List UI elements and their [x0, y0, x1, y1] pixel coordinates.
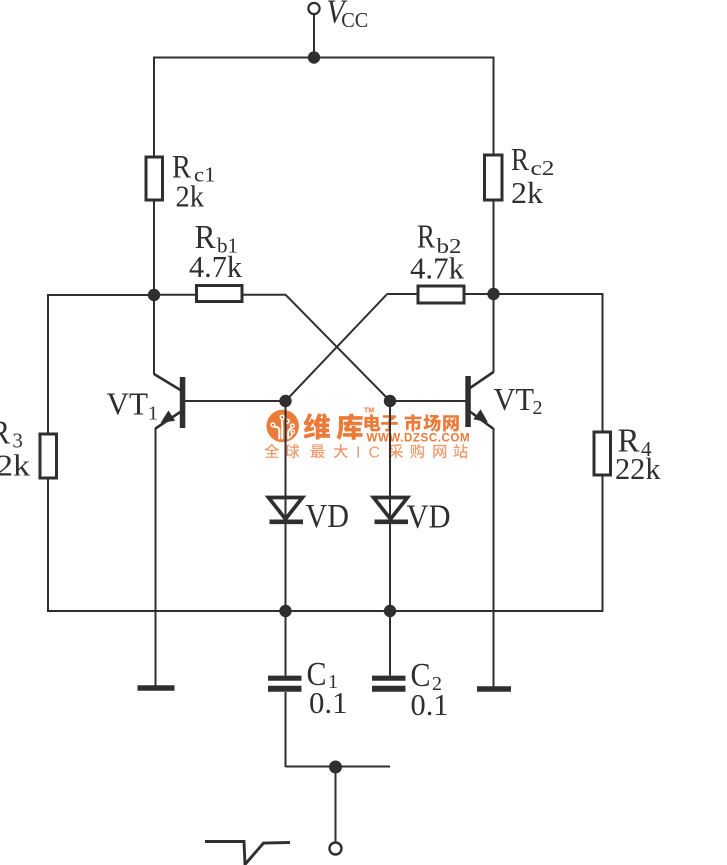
transistor VT2 [390, 372, 494, 429]
wire VT2 emitter to ground [493, 428, 495, 688]
svg-text:R: R [511, 141, 530, 177]
wire cross-coupling Rb1 to VT2 base node [286, 295, 391, 401]
label Rb1 [195, 219, 239, 258]
capacitor C1 [268, 678, 302, 689]
junction dot VD1 bottom rail [279, 605, 291, 617]
svg-text:R: R [0, 415, 10, 452]
label C2 value 0.1 [411, 687, 449, 722]
svg-text:2k: 2k [0, 448, 31, 483]
ground VT1 emitter [138, 685, 175, 691]
svg-text:VD: VD [407, 499, 451, 536]
junction dot VT1 base node [279, 395, 291, 407]
VCC terminal circle [308, 3, 319, 14]
svg-text:1: 1 [148, 403, 158, 425]
svg-text:2: 2 [533, 397, 543, 419]
resistor Rb2 4.7k [418, 286, 464, 303]
label Rc2 [511, 141, 555, 180]
svg-text:2k: 2k [176, 179, 205, 214]
wire rail to C1 [285, 611, 287, 676]
wire Rc1 to VT1 collector [153, 200, 155, 375]
watermark text dianzi shichang wang (Chinese) [364, 414, 458, 431]
svg-text:2k: 2k [511, 175, 544, 210]
diode VD2 [374, 498, 409, 522]
wire Rc2 to VT2 collector [493, 200, 495, 373]
resistor R4 [594, 432, 611, 475]
label Rb2 [417, 219, 462, 259]
wire C1 to bottom connector [285, 692, 287, 767]
svg-text:I: I [356, 445, 360, 462]
diode VD1 [269, 498, 304, 522]
watermark TM mark [364, 408, 374, 415]
label VT2 [494, 381, 543, 419]
svg-text:0.1: 0.1 [309, 685, 348, 720]
svg-text:VD: VD [306, 498, 350, 535]
label C1 value 0.1 [309, 685, 348, 720]
label Rb1 value 4.7k [189, 249, 242, 284]
wire R3 to bottom rail [47, 478, 49, 612]
junction dot Vcc on top rail [308, 51, 320, 63]
label R4 [618, 423, 653, 462]
wire top rail left drop to Rc1 [153, 57, 155, 159]
label Vcc [327, 0, 369, 32]
wire top rail [154, 57, 494, 59]
ground VT2 emitter [477, 686, 511, 692]
label R4 value 22k [615, 451, 661, 486]
label C1 [307, 656, 339, 693]
label VD1 [306, 498, 350, 535]
svg-text:4.7k: 4.7k [189, 249, 242, 284]
watermark text Weiku (Chinese) [304, 413, 363, 440]
wire left rail to R3 [48, 295, 154, 434]
wire VD1 to bottom rail [285, 523, 287, 611]
junction dot left (Rc1/Rb1/R3 node) [148, 289, 160, 301]
wire junction to Rb1 [154, 294, 196, 296]
watermark logo circle [267, 410, 299, 442]
label Rb2 value 4.7k [410, 251, 464, 286]
label Rc2 value 2k [511, 175, 544, 210]
svg-text:VT: VT [494, 381, 535, 417]
resistor Rb1 4.7k [197, 286, 243, 302]
resistor R3 [40, 434, 57, 478]
junction dot right (Rc2/Rb2/R4 node) [487, 288, 499, 300]
transistor VT1 [154, 374, 286, 429]
watermark slogan row (Chinese) [264, 444, 467, 462]
wire VT1 emitter to ground [155, 428, 157, 687]
wire bottom rail [48, 610, 603, 612]
svg-text:C: C [369, 445, 381, 462]
svg-text:WWW.DZSC.COM: WWW.DZSC.COM [367, 433, 471, 445]
wire trigger stub [335, 767, 337, 842]
wire Vcc stub [313, 14, 315, 57]
svg-text:CC: CC [341, 8, 368, 32]
wire bottom connector between C1 and C2 [286, 766, 391, 768]
label C2 [411, 657, 443, 695]
svg-text:TM: TM [364, 408, 374, 415]
wire VD2 to bottom rail [389, 523, 391, 611]
svg-text:4.7k: 4.7k [410, 251, 464, 286]
wire R4 to bottom rail [602, 475, 604, 612]
trigger pulse waveform symbol [205, 842, 290, 865]
label R3 value 2k [0, 448, 31, 483]
capacitor C2 [372, 678, 406, 689]
label VT1 [107, 386, 159, 425]
wire right rail to R4 [494, 294, 603, 432]
wire VT1 base node to VD1 [285, 401, 287, 520]
watermark url WWW.DZSC.COM [367, 433, 471, 445]
label Rc1 value 2k [176, 179, 205, 214]
svg-text:22k: 22k [615, 451, 661, 486]
svg-text:0.1: 0.1 [411, 687, 449, 722]
label Rc1 [172, 150, 216, 187]
wire cross-coupling Rb2 to VT1 base node [286, 295, 387, 401]
wire top rail right drop to Rc2 [493, 57, 495, 157]
junction dot trigger node [329, 761, 342, 774]
trigger input terminal circle [330, 843, 342, 855]
junction dot VD2 bottom rail [384, 605, 396, 617]
label R3 [0, 415, 23, 453]
junction dot VT2 base node [384, 395, 396, 407]
label VD2 [407, 499, 451, 536]
resistor Rc2 [485, 155, 503, 200]
wire Rb2 to cross point [387, 293, 419, 295]
svg-text:VT: VT [107, 386, 149, 422]
wire Rb2 to right junction [464, 293, 494, 295]
resistor Rc1 [146, 157, 163, 200]
wire VT2 base node to VD2 [389, 401, 391, 520]
wire rail to C2 [389, 611, 391, 676]
wire Rb1 to cross point [242, 294, 286, 296]
